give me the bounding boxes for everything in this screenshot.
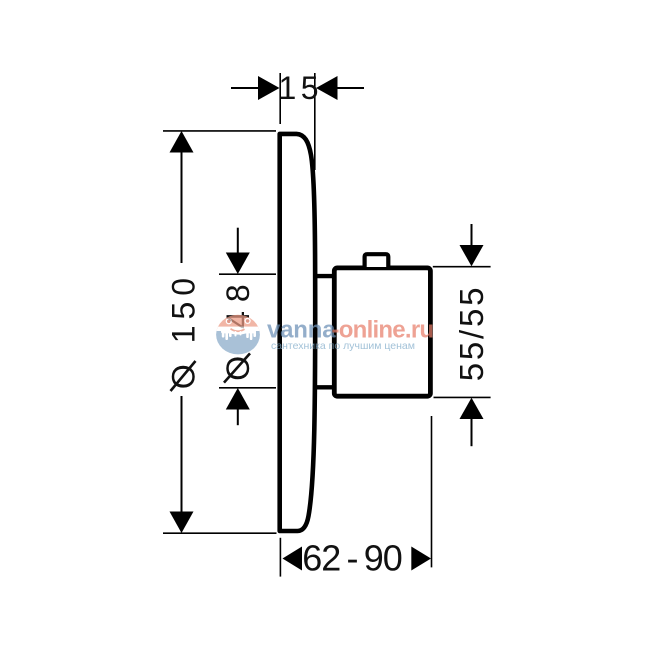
arrow 62-90 right <box>411 547 431 571</box>
arrow 62-90 left <box>283 547 303 571</box>
svg-text:15: 15 <box>279 70 324 106</box>
dim tail d48 top <box>237 228 239 254</box>
dim tail 55 top <box>471 224 473 246</box>
svg-text:62 - 90: 62 - 90 <box>302 538 402 579</box>
watermark logo drips <box>235 331 237 337</box>
svg-text:55/55: 55/55 <box>453 285 490 382</box>
watermark <box>215 313 433 357</box>
extension line d48 bottom <box>219 387 276 389</box>
extension line d48 top <box>219 273 276 275</box>
watermark logo eyes <box>226 318 232 324</box>
svg-text:сантехника по лучшим ценам: сантехника по лучшим ценам <box>271 340 415 352</box>
extension line 15 right <box>314 73 316 170</box>
extension line d150 top <box>163 130 276 132</box>
watermark logo chin <box>227 327 249 334</box>
dim line d150 lower <box>181 396 183 512</box>
arrow 15 left <box>258 76 280 100</box>
dim line 15 right <box>337 87 365 89</box>
knob tab <box>365 254 389 267</box>
collar bottom edge <box>313 385 334 389</box>
arrow 55 top <box>460 245 484 266</box>
collar top edge <box>313 274 334 278</box>
dim tail 55 bottom <box>471 418 473 446</box>
extension line 55 bottom <box>434 396 491 398</box>
watermark logo blue half <box>215 331 261 357</box>
svg-text:O 150: O 150 <box>166 272 202 389</box>
dim line d150 upper <box>181 152 183 263</box>
extension line 62-90 left <box>279 538 281 577</box>
watermark logo left paw <box>221 330 256 340</box>
d48 O-slash <box>224 353 250 382</box>
extension line d150 bottom <box>163 532 277 534</box>
extension line 55 top <box>433 266 491 268</box>
watermark logo pink half <box>215 313 261 357</box>
arrow d48 bottom <box>226 388 250 410</box>
arrow d150 top <box>170 131 194 153</box>
arrow 15 right <box>316 76 338 100</box>
d150 O-slash <box>171 361 196 391</box>
extension line 15 left <box>279 73 281 124</box>
watermark logo smile <box>231 329 245 331</box>
escutcheon plate (side profile) <box>280 134 316 531</box>
arrow d150 bottom <box>170 512 194 534</box>
arrow d48 top <box>226 253 250 275</box>
arrow 55 bottom <box>460 398 484 419</box>
knob body <box>334 268 430 396</box>
watermark logo right paw <box>246 330 257 334</box>
extension line 62-90 right <box>431 416 433 567</box>
watermark logo waterline <box>215 327 261 331</box>
dim tail d48 bottom <box>237 408 239 425</box>
dim line 15 left <box>231 87 260 89</box>
